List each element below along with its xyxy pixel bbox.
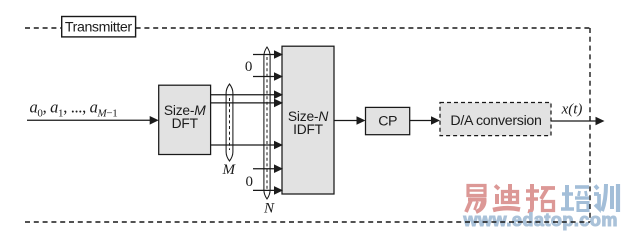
svg-text:0: 0	[245, 59, 253, 75]
svg-text:x(t): x(t)	[561, 102, 583, 118]
svg-text:M: M	[222, 162, 237, 178]
svg-text:IDFT: IDFT	[293, 122, 324, 137]
svg-text:D/A conversion: D/A conversion	[450, 113, 541, 129]
svg-text:0: 0	[246, 174, 254, 190]
svg-text:www.edatop.com: www.edatop.com	[463, 210, 618, 230]
svg-text:Transmitter: Transmitter	[65, 19, 132, 35]
svg-text:N: N	[263, 201, 275, 217]
svg-text:DFT: DFT	[172, 116, 199, 131]
svg-text:CP: CP	[378, 113, 397, 129]
